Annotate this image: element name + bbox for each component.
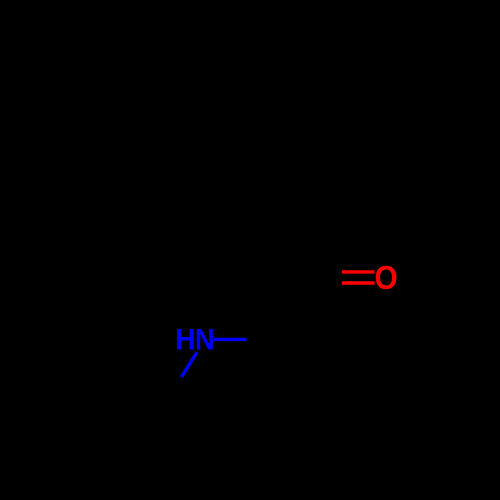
svg-text:O: O: [375, 260, 398, 297]
svg-text:N: N: [195, 324, 215, 357]
svg-text:H: H: [175, 324, 195, 357]
